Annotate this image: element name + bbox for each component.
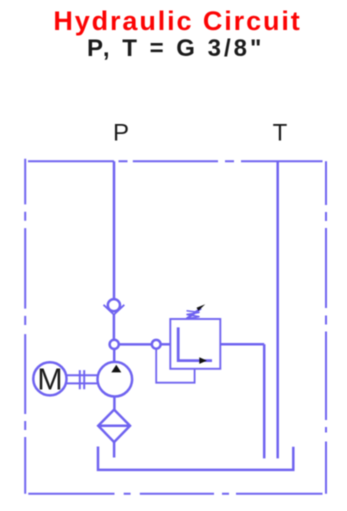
svg-text:M: M [37,362,62,396]
svg-text:P: P [113,120,129,147]
svg-text:Hydraulic Circuit: Hydraulic Circuit [53,6,301,36]
svg-text:T: T [273,120,288,147]
svg-text:P, T = G 3/8": P, T = G 3/8" [87,35,264,62]
